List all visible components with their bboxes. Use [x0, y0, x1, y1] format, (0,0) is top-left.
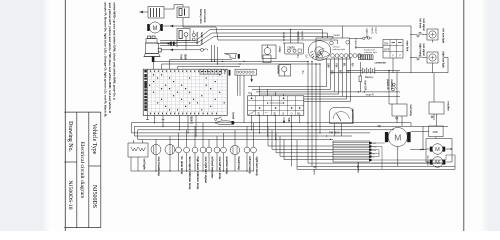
meter connector hatched — [359, 55, 374, 60]
fan motor M4 — [426, 156, 445, 168]
svg-text:Y/R: Y/R — [256, 112, 259, 116]
svg-text:radio B-: radio B- — [300, 31, 304, 40]
svg-text:left front: left front — [419, 19, 422, 29]
brake switch — [215, 113, 235, 121]
ignition position table ON OFF — [355, 40, 410, 73]
brake lamp B2 — [165, 136, 175, 171]
svg-text:Y/B: Y/B — [287, 118, 290, 122]
instrument cluster — [316, 34, 361, 59]
svg-text:G/Y: G/Y — [305, 55, 308, 60]
wire colour code legend — [104, 2, 117, 117]
wire turn signal loop — [330, 58, 448, 73]
svg-text:turn signal: turn signal — [422, 44, 425, 57]
top bus wires — [160, 26, 411, 73]
wire horn to left terminal arrow — [140, 11, 149, 13]
battery BT1 — [346, 68, 400, 80]
connector oval CN3 — [216, 121, 234, 125]
svg-text:right turn lamp: right turn lamp — [255, 157, 259, 176]
long vertical drops right of grid — [212, 45, 446, 169]
wire ignition switch row A — [157, 41, 177, 48]
svg-text:rectifier: rectifier — [447, 102, 450, 111]
svg-text:B/Y: B/Y — [339, 70, 341, 74]
R-B unit box — [429, 126, 443, 139]
svg-text:oil level indicator: oil level indicator — [211, 157, 215, 180]
tail light assembly — [128, 140, 148, 171]
ground bus wire lamps — [131, 157, 254, 172]
fuse F1 — [359, 62, 362, 92]
svg-text:rear right turn signal: rear right turn signal — [204, 157, 208, 183]
flasher relay FR1 — [276, 65, 290, 77]
kill switch symbol — [392, 83, 397, 91]
wires from grid top to bus — [154, 60, 321, 70]
wires radio to bus — [291, 30, 299, 44]
svg-text:Electrical circuit diagram: Electrical circuit diagram — [79, 142, 85, 199]
right lower bus wires — [297, 140, 455, 169]
svg-text:right rear: right rear — [365, 29, 368, 38]
svg-text:rough R: rough R — [366, 94, 375, 97]
svg-text:Gr: Gr — [347, 70, 349, 73]
svg-text:ON: ON — [384, 42, 388, 46]
connector strip CN2 — [235, 69, 257, 75]
svg-text:connector: connector — [375, 62, 387, 65]
rectifier box right 2 — [429, 102, 450, 121]
fuel gauge meter — [329, 108, 354, 137]
svg-text:NJ500DS-18: NJ500DS-18 — [67, 180, 73, 209]
fan wiring loop — [410, 139, 452, 163]
svg-text:speedometer: speedometer — [351, 109, 354, 124]
indicator lamp L2 — [184, 130, 190, 171]
fan motor M3 — [430, 144, 445, 155]
svg-text:Y/B: Y/B — [272, 112, 275, 116]
svg-text:magneto: magneto — [357, 163, 360, 174]
wires from grid bottom — [146, 115, 196, 136]
motor bottom wires — [398, 114, 437, 166]
indicator lamp L7 — [221, 133, 227, 171]
connector strip CN1 — [200, 69, 221, 74]
svg-text:indicator light: indicator light — [364, 51, 377, 54]
indicator lamp L3 — [192, 126, 198, 171]
svg-text:fan motor: fan motor — [426, 156, 429, 166]
wire M to R-B — [411, 126, 429, 150]
svg-text:start link: start link — [406, 41, 410, 52]
horn HN1 — [148, 7, 164, 19]
svg-text:R/Y: R/Y — [351, 63, 353, 67]
svg-text:NJ500DS: NJ500DS — [91, 185, 97, 208]
ignition switch SW1 — [144, 36, 161, 62]
small box above flasher — [263, 55, 271, 63]
harness bundle mid horizontals — [248, 87, 351, 102]
svg-text:radio: radio — [288, 45, 296, 49]
main relay K2 — [177, 29, 190, 50]
grid row label column text — [144, 70, 147, 111]
magneto wires to motor — [372, 143, 385, 169]
svg-text:left turn: left turn — [333, 45, 341, 48]
svg-text:start motor: start motor — [203, 9, 207, 23]
arrow below CN2 — [251, 75, 253, 82]
title block — [64, 112, 101, 228]
svg-text:turn relay: turn relay — [409, 105, 412, 117]
svg-text:G: G — [373, 157, 375, 159]
relay feed wires — [389, 71, 434, 104]
drawing frame right border — [463, 0, 465, 231]
staircase harness to magneto — [268, 126, 333, 159]
magneto wire labels — [373, 143, 378, 159]
svg-text:radio B+: radio B+ — [297, 31, 301, 41]
resistor unit box — [262, 45, 282, 59]
svg-text:Y: Y — [399, 54, 401, 58]
svg-text:O: O — [291, 112, 293, 115]
big connection grid table — [143, 69, 227, 115]
svg-text:P/B B/W: P/B B/W — [329, 131, 340, 135]
svg-text:M: M — [394, 132, 401, 142]
bus junction dots — [154, 122, 331, 140]
grid header marks top — [150, 70, 226, 72]
svg-text:flasher: flasher — [276, 66, 280, 75]
meter wire drops — [327, 58, 351, 102]
svg-text:B earth: B earth — [313, 167, 316, 176]
svg-text:purple-P; Brown-Br; light blue: purple-P; Brown-Br; light blue-LBL; Oran… — [104, 3, 108, 117]
svg-text:lock Y: lock Y — [374, 28, 376, 35]
magneto stator — [313, 141, 372, 175]
indicator lamp L10 — [251, 123, 257, 171]
svg-text:rear breaklamp: rear breaklamp — [157, 157, 161, 177]
indicator lamp L9 — [244, 126, 250, 171]
svg-text:LBL: LBL — [331, 70, 333, 75]
svg-text:B/L: B/L — [343, 63, 345, 67]
lamp labels — [157, 157, 259, 190]
relay box right 1 — [392, 104, 412, 126]
svg-text:rear left turn lamp: rear left turn lamp — [218, 157, 222, 180]
svg-text:turn signal: turn signal — [422, 19, 425, 32]
label between strips — [224, 70, 231, 76]
diode D1 — [192, 31, 195, 41]
svg-text:indicator light: indicator light — [333, 48, 346, 51]
battery feed lines — [335, 70, 401, 97]
long harness bus wires — [132, 123, 449, 140]
engine starter motor M2 — [378, 124, 411, 147]
svg-text:turn signal indicator lamp: turn signal indicator lamp — [188, 157, 192, 190]
svg-text:fuse 15A: fuse 15A — [364, 81, 367, 91]
wire horn top to starter relay — [164, 5, 183, 10]
svg-text:speaker R: speaker R — [282, 32, 286, 44]
indicator lamp L1 — [176, 133, 182, 171]
svg-text:Drawing No.: Drawing No. — [67, 121, 73, 152]
grid connection dots — [149, 74, 225, 110]
brake lamp B1 — [151, 139, 161, 171]
svg-text:Y/G: Y/G — [373, 147, 377, 149]
svg-text:right front: right front — [419, 44, 422, 56]
right front turn signal light — [410, 52, 438, 73]
bus junction dots upper — [211, 29, 321, 65]
svg-text:Vehicle Type: Vehicle Type — [91, 124, 97, 155]
wire ignition switch row B — [161, 48, 208, 51]
medium connection grid table — [248, 96, 304, 116]
speedo dial oval — [308, 41, 330, 61]
svg-text:M: M — [435, 147, 440, 153]
svg-text:Y: Y — [392, 54, 394, 58]
svg-text:meter: meter — [334, 34, 340, 37]
wire starter motor to bus with arrow — [163, 25, 207, 28]
svg-text:battery wire: battery wire — [199, 9, 203, 24]
starter relay K1 — [177, 7, 189, 27]
svg-text:position lamp: position lamp — [225, 157, 229, 175]
svg-text:Battery: Battery — [365, 75, 374, 79]
svg-text:lic. plate lamp: lic. plate lamp — [180, 157, 184, 175]
indicator lamp L5 — [206, 139, 212, 171]
indicator lamp L6 — [214, 136, 220, 171]
svg-text:turn B: turn B — [371, 28, 374, 35]
svg-text:and yellow-R/Y; yellow and whi: and yellow-R/Y; yellow and white-Y/W; bl… — [108, 3, 112, 114]
rear big lamp L8 — [230, 130, 239, 171]
grid header marks bottom — [150, 113, 217, 115]
svg-text:left turn light: left turn light — [442, 29, 445, 44]
radio horn box — [285, 43, 304, 54]
svg-text:head lamp: head lamp — [237, 157, 241, 171]
svg-text:break: break — [232, 113, 235, 120]
svg-text:right turn light: right turn light — [442, 52, 445, 69]
left front turn signal light — [410, 29, 438, 43]
wires medium grid to bundle — [248, 87, 284, 96]
svg-text:B/L: B/L — [297, 112, 301, 115]
starter motor M1 — [147, 22, 163, 33]
horn speaker symbol — [224, 54, 239, 59]
svg-text:tail light: tail light — [143, 159, 147, 170]
svg-text:OFF: OFF — [384, 48, 390, 52]
indicator lamp L4 — [200, 123, 206, 171]
hand brake switch symbol — [350, 28, 377, 49]
svg-text:high beam indicator lamp: high beam indicator lamp — [196, 157, 200, 190]
svg-text:M: M — [153, 26, 158, 32]
wires medium grid bottom drops — [252, 115, 300, 166]
svg-text:relay: relay — [278, 47, 282, 54]
drawing frame left border — [64, 0, 66, 231]
svg-text:white-W/Br; green and white-G/: white-W/Br; green and white-G/W; black a… — [113, 2, 117, 101]
svg-text:B/W G: B/W G — [190, 117, 194, 125]
svg-text:B/R: B/R — [373, 150, 377, 152]
svg-text:R/B: R/B — [433, 130, 438, 134]
svg-text:(B): (B) — [378, 124, 382, 128]
